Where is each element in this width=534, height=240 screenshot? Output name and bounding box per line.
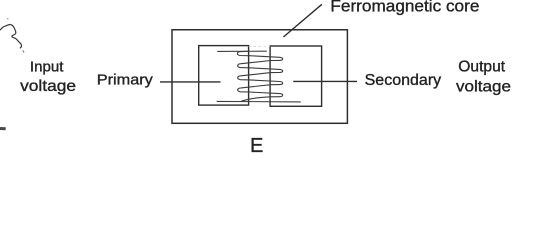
svg-text:voltage: voltage [20,78,76,95]
svg-text:voltage: voltage [456,79,511,96]
svg-text:Primary: Primary [97,72,154,88]
svg-text:Input: Input [30,58,64,75]
svg-text:Output: Output [458,58,505,75]
svg-text:Secondary: Secondary [365,72,442,89]
svg-text:Ferromagnetic core: Ferromagnetic core [330,0,479,16]
svg-text:E: E [250,135,263,157]
